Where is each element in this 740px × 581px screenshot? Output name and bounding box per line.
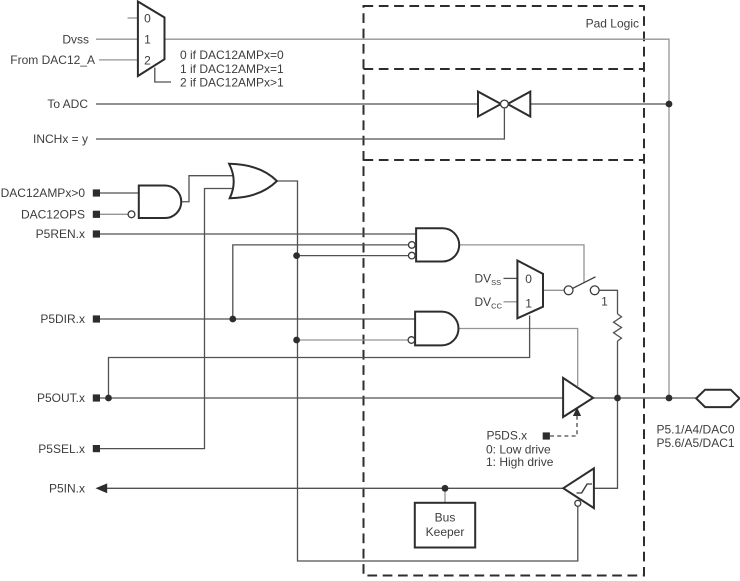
wire DVcc to resistor mux <box>504 301 518 303</box>
wire P5DIR branch up to NAND1 input 2 <box>233 245 408 319</box>
svg-text:0: 0 <box>525 272 532 286</box>
wire OR-rail branch to NAND2 input 2 <box>297 339 408 341</box>
wire OR output down to bus-keeper enable rail <box>277 181 578 561</box>
svg-text:DVSS: DVSS <box>475 272 502 288</box>
junction dot P5DIR branch <box>229 316 236 323</box>
wire ADC right segment to pad column <box>530 103 669 105</box>
wire AND output to OR input 1 <box>181 176 233 202</box>
arrow P5IN.x arrowhead <box>96 483 108 493</box>
junction dot DAC column to pad line <box>666 395 673 402</box>
wire OR-rail branch to NAND1 input 3 <box>297 255 409 257</box>
terminal square P5REN.x <box>93 230 100 237</box>
svg-text:DVCC: DVCC <box>475 295 503 311</box>
svg-text:P5OUT.x: P5OUT.x <box>37 391 85 405</box>
wire DAC12OPS to AND inverted input <box>100 213 128 215</box>
svg-text:2: 2 <box>144 53 151 67</box>
label mux select legend <box>180 48 284 89</box>
junction dot P5OUT branch <box>105 395 112 402</box>
wire pad column down to Schmitt input <box>594 398 618 488</box>
svg-text:Keeper: Keeper <box>426 525 465 539</box>
svg-text:P5REN.x: P5REN.x <box>36 227 85 241</box>
switch S1 pullup enable <box>564 277 599 295</box>
NAND gate U4 (3-input, REN/DIR/SEL) <box>409 228 460 261</box>
svg-text:P5.6/A5/DAC1: P5.6/A5/DAC1 <box>657 436 735 450</box>
output buffer U7 <box>563 378 593 417</box>
svg-text:Bus: Bus <box>435 510 456 524</box>
AND gate U2 (DAC12AMPx>0 & /DAC12OPS) <box>128 186 181 219</box>
wire NAND2 output to output-buffer enable <box>454 329 577 387</box>
wire resistor-mux select from P5OUT <box>109 316 530 399</box>
svg-text:Pad Logic: Pad Logic <box>586 17 639 31</box>
svg-text:0 if DAC12AMPx=0: 0 if DAC12AMPx=0 <box>180 48 284 62</box>
Bus Keeper block <box>415 503 475 548</box>
wire To ADC left segment <box>96 103 478 105</box>
arrow drive-strength into buffer <box>573 407 581 416</box>
junction dot ADC tap on DAC column <box>666 101 673 108</box>
junction dot bus keeper tap <box>442 485 449 492</box>
wire P5REN.x to NAND1 input 1 <box>100 233 416 235</box>
terminal square P5DS.x <box>543 432 550 439</box>
terminal square P5SEL.x <box>93 445 100 452</box>
junction dot OR-rail to NAND1 <box>293 252 300 259</box>
svg-text:P5DS.x: P5DS.x <box>487 429 528 443</box>
junction dot resistor to pad line <box>614 395 621 402</box>
svg-text:DAC12OPS: DAC12OPS <box>21 208 85 222</box>
wire DVss to resistor mux <box>504 277 518 279</box>
svg-text:2 if DAC12AMPx>1: 2 if DAC12AMPx>1 <box>180 76 284 90</box>
svg-text:P5SEL.x: P5SEL.x <box>38 442 85 456</box>
wire mux select indicator <box>155 68 171 82</box>
wire Dvss input to mux <box>96 38 138 40</box>
wire P5OUT.x to output buffer <box>100 397 563 399</box>
pad P5.x hexagon <box>696 390 739 407</box>
wire P5SEL.x vertical to OR input 2 <box>100 189 234 449</box>
wire P5DIR.x to NAND2 input 1 <box>100 318 415 320</box>
svg-text:From DAC12_A: From DAC12_A <box>10 53 95 67</box>
svg-text:1: High drive: 1: High drive <box>486 455 554 469</box>
svg-text:0: 0 <box>144 11 151 25</box>
wire DAC12AMPx>0 to AND input <box>100 192 139 194</box>
terminal square P5DIR.x <box>93 315 100 322</box>
svg-text:P5DIR.x: P5DIR.x <box>40 312 85 326</box>
wire NAND1 output to switch control <box>456 245 584 283</box>
Schmitt trigger input buffer U8 <box>563 468 594 508</box>
svg-text:P5IN.x: P5IN.x <box>49 482 85 496</box>
svg-text:To ADC: To ADC <box>47 97 88 111</box>
terminal square DAC12OPS <box>93 211 100 218</box>
wire mux output to pad column <box>165 39 670 398</box>
svg-text:1 if DAC12AMPx=1: 1 if DAC12AMPx=1 <box>180 62 284 76</box>
Pad Logic dashed boundary box <box>364 6 645 576</box>
svg-text:INCHx = y: INCHx = y <box>33 132 88 146</box>
resistor R pullup zigzag <box>614 314 622 341</box>
terminal square P5OUT.x <box>93 394 100 401</box>
wire P5IN.x from Schmitt output <box>97 487 563 489</box>
wire output buffer to pad <box>593 397 696 399</box>
OR gate U3 <box>229 164 277 198</box>
mux U1 DAC12AMPx output select <box>138 2 165 77</box>
svg-text:1: 1 <box>601 295 608 309</box>
transmission gate to ADC <box>478 92 530 117</box>
wire switch to resistor top <box>599 290 617 314</box>
svg-text:1: 1 <box>525 296 532 310</box>
svg-text:P5.1/A4/DAC0: P5.1/A4/DAC0 <box>657 423 735 437</box>
svg-text:DAC12AMPx>0: DAC12AMPx>0 <box>1 186 86 200</box>
wire resistor-mux output to switch <box>543 289 564 291</box>
wire From DAC12_A input to mux <box>99 59 138 61</box>
svg-text:1: 1 <box>144 32 151 46</box>
junction dot OR-rail to NAND2 <box>293 337 300 344</box>
wire mux0 stub input <box>128 17 138 19</box>
NAND gate U5 (2-input, DIR/SEL) <box>408 312 458 346</box>
terminal square DAC12AMPx>0 <box>93 189 100 196</box>
svg-text:Dvss: Dvss <box>62 32 89 46</box>
wire P5DS.x dashed control <box>550 414 577 436</box>
wire resistor bottom to pad line <box>617 341 619 398</box>
wire bus keeper drop <box>444 488 446 503</box>
mux U6 DVss/DVcc pull select <box>517 261 543 319</box>
wire INCHx = y to transmission gate control <box>96 108 504 139</box>
